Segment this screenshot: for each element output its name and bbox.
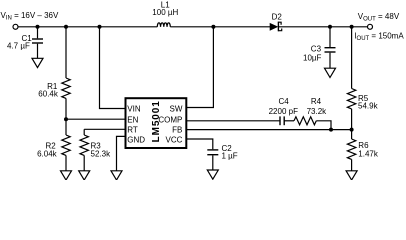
- wire COMP (IC to C4): [187, 120, 281, 122]
- capacitor C4: [280, 116, 294, 125]
- wire EN (junction to IC): [66, 118, 125, 120]
- node: C1 junction on rail: [36, 25, 40, 29]
- wire VCC (IC to C2): [187, 139, 213, 149]
- svg-text:60.4k: 60.4k: [38, 90, 59, 99]
- diode D2 (schottky): [270, 22, 282, 32]
- resistor R3: [80, 129, 88, 171]
- svg-text:RT: RT: [127, 126, 138, 135]
- capacitor C1: [32, 27, 43, 59]
- wire top rail mid (L1 to D2): [170, 26, 270, 28]
- svg-text:VCC: VCC: [166, 136, 183, 145]
- resistor R6: [347, 130, 355, 171]
- svg-text:C4: C4: [279, 97, 290, 106]
- svg-text:R4: R4: [311, 97, 322, 106]
- svg-text:FB: FB: [172, 126, 182, 135]
- ground (R6): [346, 171, 357, 180]
- op-amp U1 LM5001 box: [126, 98, 187, 148]
- ground (C1): [32, 58, 43, 67]
- wire top rail right (D2 to VOUT): [279, 26, 367, 28]
- svg-text:EN: EN: [127, 116, 138, 125]
- svg-text:LM5001: LM5001: [151, 100, 162, 142]
- svg-text:SW: SW: [170, 104, 183, 113]
- node: R5 junction on rail: [350, 25, 354, 29]
- output terminal VOUT: [368, 24, 373, 29]
- node: comp/FB junction: [329, 128, 333, 132]
- svg-text:D2: D2: [272, 12, 283, 21]
- wire top rail left (VIN to L1): [18, 26, 157, 28]
- capacitor C3: [325, 27, 336, 68]
- svg-text:C3: C3: [311, 45, 322, 54]
- capacitor C2: [207, 150, 218, 170]
- resistor R5: [347, 27, 355, 130]
- svg-text:2200 pF: 2200 pF: [269, 107, 298, 116]
- svg-text:52.3k: 52.3k: [91, 149, 112, 158]
- node: VIN-pin junction on rail: [98, 25, 102, 29]
- resistor R1: [62, 27, 70, 119]
- input terminal VIN: [13, 24, 18, 29]
- svg-text:1 µF: 1 µF: [222, 152, 238, 161]
- svg-text:54.9k: 54.9k: [358, 102, 379, 111]
- svg-text:73.2k: 73.2k: [307, 107, 328, 116]
- svg-text:GND: GND: [127, 136, 145, 145]
- svg-text:6.04k: 6.04k: [37, 149, 58, 158]
- svg-text:IOUT = 150mA: IOUT = 150mA: [354, 32, 404, 43]
- svg-text:10µF: 10µF: [303, 54, 322, 63]
- svg-text:VOUT = 48V: VOUT = 48V: [358, 12, 400, 23]
- svg-text:VIN: VIN: [127, 104, 141, 113]
- svg-text:VIN = 16V – 36V: VIN = 16V – 36V: [1, 11, 59, 22]
- wire RT (R3 to IC): [84, 128, 125, 130]
- resistor R4: [294, 117, 316, 125]
- ground (R2): [61, 171, 72, 180]
- svg-text:1.47k: 1.47k: [358, 150, 379, 159]
- node: divider junction: [350, 128, 354, 132]
- node: SW junction on rail: [211, 25, 215, 29]
- ground (R3): [79, 171, 90, 180]
- inductor L1: [157, 23, 170, 27]
- wire R4 to FB line: [316, 121, 331, 130]
- wire VIN pin (rail down to IC): [100, 27, 126, 109]
- resistor R2: [62, 119, 70, 171]
- ground (C2): [207, 170, 218, 179]
- node: R1 junction on rail: [64, 25, 68, 29]
- wire GND pin (IC to ground): [117, 136, 126, 170]
- node: C3 junction on rail: [328, 25, 332, 29]
- svg-text:COMP: COMP: [158, 116, 182, 125]
- node: R1/R2/EN junction: [64, 117, 68, 121]
- wire SW (IC up to rail): [187, 27, 214, 108]
- svg-text:100 µH: 100 µH: [152, 8, 178, 17]
- svg-text:4.7 µF: 4.7 µF: [7, 42, 30, 51]
- wire FB (IC to divider): [187, 129, 352, 131]
- ground (IC GND): [111, 171, 122, 180]
- ground (C3): [325, 68, 336, 77]
